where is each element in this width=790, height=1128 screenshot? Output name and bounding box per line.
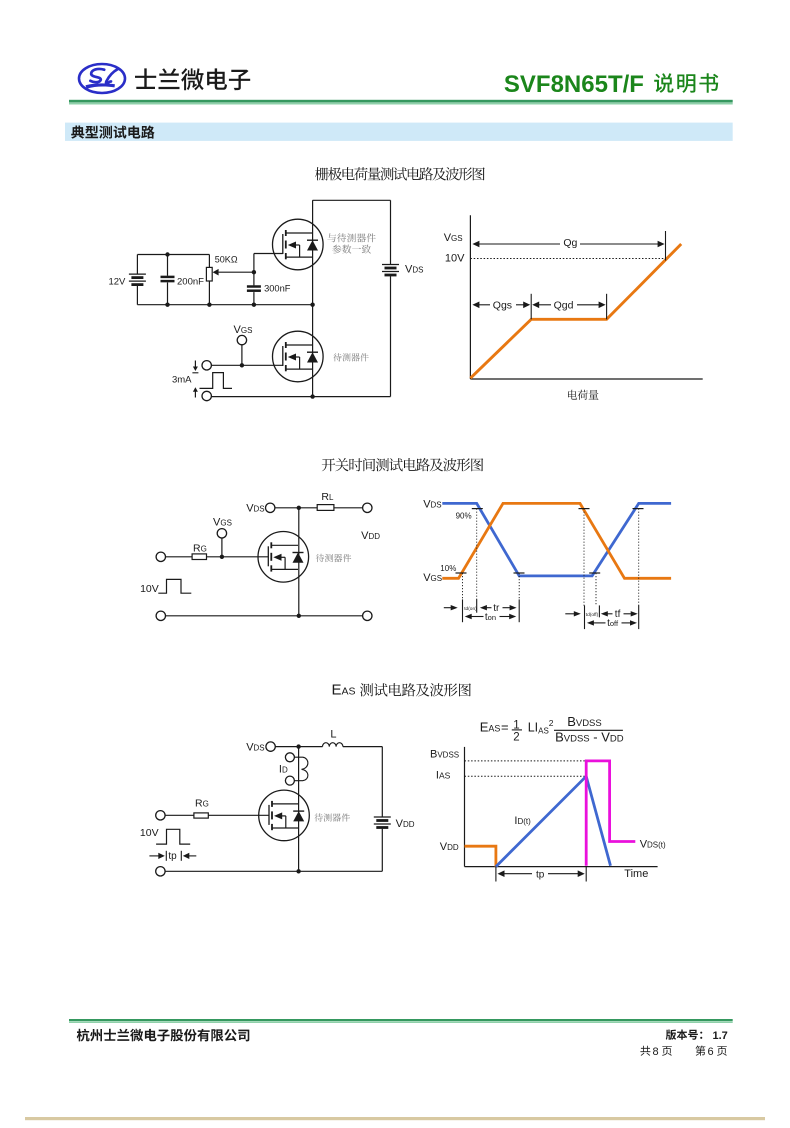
- svg-text:RG: RG: [193, 542, 207, 554]
- svg-text:L: L: [330, 729, 336, 741]
- svg-text:1.7: 1.7: [713, 1030, 728, 1042]
- svg-text:300nF: 300nF: [264, 284, 291, 294]
- svg-text:Qgs: Qgs: [493, 300, 512, 312]
- svg-text:tp: tp: [536, 869, 545, 880]
- svg-text:IAS: IAS: [436, 769, 451, 781]
- svg-text:VGS: VGS: [444, 232, 463, 244]
- svg-text:8: 8: [653, 1046, 659, 1058]
- svg-text:10V: 10V: [140, 583, 159, 595]
- svg-text:=: =: [501, 719, 509, 734]
- svg-text:Qgd: Qgd: [554, 300, 574, 312]
- svg-text:SVF8N65T/F: SVF8N65T/F: [504, 71, 644, 98]
- svg-text:td(off): td(off): [586, 612, 599, 618]
- svg-text:tp: tp: [168, 851, 177, 862]
- svg-text:VDS: VDS: [405, 264, 423, 276]
- svg-text:VDS: VDS: [246, 502, 264, 514]
- svg-text:VGS: VGS: [213, 516, 232, 528]
- svg-text:Time: Time: [624, 868, 648, 880]
- svg-text:2: 2: [513, 732, 519, 744]
- svg-text:VDS(t): VDS(t): [640, 839, 666, 851]
- svg-text:10V: 10V: [445, 253, 465, 265]
- svg-text:BVDSS: BVDSS: [430, 749, 459, 761]
- svg-text:10%: 10%: [440, 564, 456, 573]
- svg-text:RG: RG: [195, 798, 209, 810]
- svg-text:VDD: VDD: [361, 530, 380, 542]
- svg-text:ton: ton: [485, 612, 496, 623]
- svg-text:VGS: VGS: [234, 324, 253, 336]
- svg-text:Qg: Qg: [563, 237, 577, 249]
- svg-text:toff: toff: [607, 618, 619, 629]
- svg-text:6: 6: [708, 1046, 714, 1058]
- svg-text:50KΩ: 50KΩ: [215, 254, 238, 264]
- svg-text:VGS: VGS: [423, 572, 442, 584]
- svg-text:12V: 12V: [108, 276, 126, 287]
- svg-text:10V: 10V: [140, 827, 159, 839]
- svg-text:200nF: 200nF: [177, 276, 204, 287]
- svg-text:90%: 90%: [456, 512, 472, 521]
- svg-text:VDD: VDD: [440, 841, 459, 853]
- svg-text:ID(t): ID(t): [514, 815, 531, 827]
- svg-text:3mA: 3mA: [172, 374, 192, 385]
- svg-text:td(on): td(on): [464, 606, 477, 612]
- svg-text:VDS: VDS: [423, 499, 441, 511]
- svg-text:RL: RL: [321, 491, 334, 503]
- svg-text:ID: ID: [279, 764, 288, 776]
- svg-text:VDS: VDS: [246, 742, 264, 754]
- svg-text:VDD: VDD: [396, 818, 415, 830]
